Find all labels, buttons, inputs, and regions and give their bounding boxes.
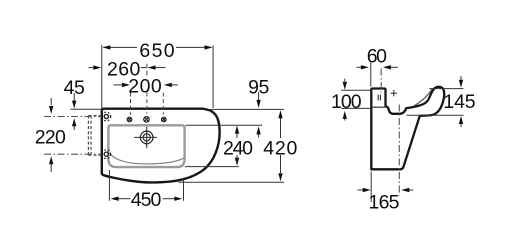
mounting hole upper xyxy=(102,112,111,121)
svg-text:165: 165 xyxy=(369,192,400,214)
dim 420 xyxy=(278,110,282,181)
svg-text:145: 145 xyxy=(443,91,475,113)
centerline lower mounting hole xyxy=(44,153,101,155)
extension line inner rim right xyxy=(186,124,263,126)
dim 200 xyxy=(114,83,178,87)
drop line centre tap hole xyxy=(146,64,148,77)
dim 60 xyxy=(357,63,398,87)
svg-text:650: 650 xyxy=(139,40,174,62)
dim 145 xyxy=(407,76,464,127)
side profile outline xyxy=(371,87,444,170)
drop line right tap hole xyxy=(162,93,164,115)
svg-text:240: 240 xyxy=(223,137,253,159)
extension line basin lowest right xyxy=(179,181,285,183)
dim 165 xyxy=(358,172,414,203)
extension line basin inner bottom right xyxy=(185,166,239,168)
centerline upper mounting hole xyxy=(44,116,101,118)
dim 95 arrows xyxy=(256,92,260,138)
svg-text:450: 450 xyxy=(131,189,162,211)
extension line top edge right xyxy=(211,108,284,110)
dim 240 xyxy=(235,126,239,166)
svg-text:100: 100 xyxy=(331,91,362,113)
dim 260 xyxy=(89,65,166,69)
dim 450 xyxy=(109,170,183,201)
cross mark tap axis xyxy=(391,90,397,96)
faucet hole section lines xyxy=(378,95,380,101)
extension line top edge left xyxy=(71,108,102,110)
basin outer outline xyxy=(102,109,220,183)
faucet axis centerline xyxy=(380,69,382,93)
hidden bracket dashed rectangle xyxy=(88,116,102,156)
bowl bottom arc xyxy=(109,153,184,164)
far rim silhouette line xyxy=(414,89,433,106)
svg-text:95: 95 xyxy=(248,77,269,99)
dim 45 arrows xyxy=(72,93,76,130)
tap deck bottom line xyxy=(372,106,386,108)
mounting hole lower xyxy=(102,150,111,159)
svg-text:60: 60 xyxy=(367,45,387,67)
dim 100 xyxy=(341,79,371,121)
drain with crosshair xyxy=(134,127,157,149)
svg-text:200: 200 xyxy=(128,76,162,98)
tap hole left xyxy=(127,117,132,122)
drain axis centerline xyxy=(398,105,400,196)
tap hole right xyxy=(162,117,167,122)
drop line left tap hole xyxy=(130,93,132,115)
dim 650 xyxy=(102,45,213,108)
svg-text:420: 420 xyxy=(263,138,297,160)
inner basin rim xyxy=(108,125,184,167)
dim 220 arrows xyxy=(49,98,53,172)
svg-text:45: 45 xyxy=(64,77,85,99)
tap hole centre xyxy=(144,117,150,123)
svg-text:220: 220 xyxy=(35,126,66,148)
